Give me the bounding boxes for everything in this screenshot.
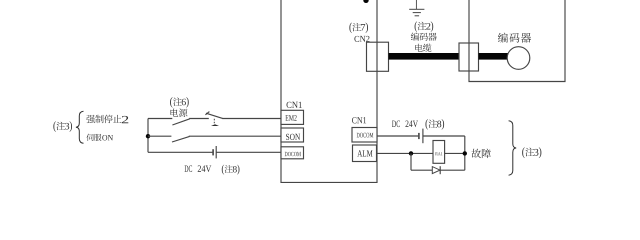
diode [432,166,440,174]
pin EM2 [281,110,304,124]
label (note7) [349,22,351,33]
encoder circle [507,47,530,70]
label (note2) [415,21,417,32]
wire SON a [148,135,171,137]
pin SON [281,128,304,142]
label servo ON [86,134,93,141]
label CN2 [354,36,359,42]
left vertical wire [410,153,412,170]
label encoder [498,33,508,43]
wire SON b [189,135,281,137]
wire DOCOM left b [216,151,281,153]
label encoder-cable line2 [415,44,422,52]
junction dot right [463,151,467,155]
label (note6) [170,97,172,108]
label fault [471,149,481,158]
wire DOCOM right a [377,135,418,137]
battery DC24V right [419,129,423,144]
pin ALM [353,145,377,162]
left bus wire [147,119,149,153]
junction dot (top, cropped) [363,0,368,3]
switch (power) blade [172,119,189,125]
label (note3) left [53,121,55,132]
ground symbol [409,0,424,16]
right vertical wire [464,136,466,170]
connector CN2 on amplifier [367,42,389,71]
right brace [509,121,517,175]
left brace [76,111,84,143]
emergency stop contact [205,112,222,126]
motor box outline [469,0,565,82]
battery DC24V left [213,146,216,158]
amplifier edge through CN2 box [376,42,378,71]
motor-side connector [459,43,479,71]
label DC 24V (note8) bottom [184,165,239,175]
wire EM2 a [148,118,172,120]
junction dot left [409,151,413,155]
label (note3) right [522,147,524,158]
relay coil RA1 [433,141,445,164]
label encoder-cable line1 [411,32,419,40]
servo amplifier box outline [281,0,377,182]
label CN1 (right) [352,117,357,123]
wire DOCOM left a [148,151,213,153]
junction dot on bus [146,134,150,138]
pin DOCOM (left) [281,147,304,159]
label DC 24V (note8) right [392,119,444,130]
label forced stop 2 [86,115,95,123]
wire ALM [377,152,465,154]
label CN1 (left) [287,102,292,108]
bottom wire [411,169,465,171]
encoder cable segment 1 (thick) [389,53,460,60]
encoder cable segment 2 (thick) [479,53,509,60]
wire DOCOM right b [423,135,465,137]
switch SON blade [172,136,190,142]
label power [170,108,178,116]
pin DOCOM (right) [352,128,377,143]
wire EM2 c [222,118,281,120]
motor box edge through connector [468,43,470,71]
wire EM2 b [189,118,209,120]
